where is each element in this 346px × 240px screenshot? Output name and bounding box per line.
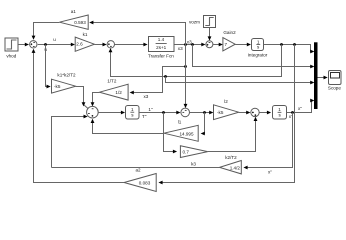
svg-text:7: 7 <box>225 42 228 47</box>
svg-text:14.995: 14.995 <box>179 132 193 137</box>
wire k1 to sum S2 <box>94 43 106 47</box>
gain Gain2 value 7 <box>223 30 236 51</box>
gain k1 value 2.6 <box>75 32 94 51</box>
svg-text:x'': x'' <box>298 106 302 111</box>
svg-text:Gain2: Gain2 <box>223 30 236 35</box>
sum S6 <box>251 108 259 116</box>
svg-text:1.4/2: 1.4/2 <box>230 165 241 170</box>
wire mux to scope <box>318 76 328 80</box>
gain l2 value -k5 <box>214 99 239 120</box>
gain 1/T2 value 1/2 <box>100 79 129 101</box>
svg-text:l2: l2 <box>224 99 228 104</box>
svg-text:a2: a2 <box>135 168 141 173</box>
gain a2 value 0.083 <box>124 168 156 192</box>
wire branch integrator1 out down to a2 input <box>158 45 294 185</box>
mid integrator block 1/s <box>126 106 140 120</box>
svg-text:Scope: Scope <box>328 86 341 91</box>
svg-text:l1: l1 <box>178 120 182 125</box>
svg-text:x3: x3 <box>144 94 149 99</box>
wire vozm down to S5 <box>208 28 212 41</box>
wire T'' branch down to gain k3 <box>164 113 178 154</box>
svg-text:Integrator: Integrator <box>248 53 268 58</box>
wire a1 feedback from x3 junction <box>89 21 185 45</box>
svg-text:x3: x3 <box>187 40 192 45</box>
svg-text:vhod: vhod <box>6 54 16 59</box>
wire x3: TF to sum S5 with junctions <box>174 40 205 51</box>
transfer fcn block 1.4/(2s+1) <box>148 37 174 59</box>
wire branch x' down to gain k2/T2 input <box>243 113 292 175</box>
svg-text:a1: a1 <box>71 9 77 14</box>
svg-text:k1*k2/T2: k1*k2/T2 <box>57 73 76 78</box>
sum S4 <box>181 108 190 117</box>
svg-text:k2/T2: k2/T2 <box>225 155 237 160</box>
sum S3 <box>87 106 99 118</box>
svg-text:x': x' <box>289 114 292 119</box>
wire Gain2 to Integrator <box>235 43 251 47</box>
svg-text:1'': 1'' <box>148 107 152 112</box>
mux block <box>314 42 318 109</box>
svg-text:T'': T'' <box>142 114 147 119</box>
wire integrator output to mux input 1 with junctions <box>264 43 315 53</box>
sum S1 <box>30 41 37 48</box>
wire k2/T2 output left to S3 feedback corner <box>52 167 220 169</box>
wire S6 to integrator2 <box>259 111 271 115</box>
wire x3 vertical V1 down into S4 top <box>184 45 188 109</box>
gain k1*k2/T2 value -k5 <box>52 73 77 94</box>
wire V2 branch x3 to mux input 2 <box>193 45 315 69</box>
wire 14.995 output into S3 bottom <box>91 119 164 134</box>
svg-text:2s+1: 2s+1 <box>156 45 167 50</box>
svg-text:Transfer Fcn: Transfer Fcn <box>148 54 174 59</box>
svg-text:-k5: -k5 <box>217 110 224 115</box>
svg-text:u: u <box>53 37 56 42</box>
wire k3 output right and up into S6 bottom <box>208 117 258 152</box>
wire k1k2 output to S3 upper-left <box>76 87 89 109</box>
svg-text:vozm: vozm <box>189 20 200 25</box>
svg-text:2.6: 2.6 <box>76 42 83 47</box>
svg-text:0.593: 0.593 <box>74 20 86 25</box>
gain a1 value 0.593 <box>59 9 88 29</box>
wire vhod to sum S1 <box>18 43 29 47</box>
scope block <box>328 71 341 91</box>
wire u: S1 to gain k1, junction <box>38 37 75 52</box>
wire S4 to gain l2 with junction <box>190 111 214 115</box>
wire lower-left feedback into S3 <box>52 115 88 168</box>
svg-text:0.7: 0.7 <box>183 150 190 155</box>
svg-text:1/T2: 1/T2 <box>107 79 117 84</box>
svg-text:x3: x3 <box>178 46 183 51</box>
svg-text:0.083: 0.083 <box>139 181 151 186</box>
svg-text:-k5: -k5 <box>54 84 61 89</box>
wire T'' from mid integrator to S4 with junction <box>139 107 181 119</box>
svg-text:1/2: 1/2 <box>115 90 122 95</box>
svg-text:1: 1 <box>278 107 281 112</box>
wire l2 to sum S6 <box>239 111 251 115</box>
gain l1 value 14.995 <box>164 120 198 142</box>
step source vhod <box>5 38 18 59</box>
integrator2 block 1/s <box>273 106 287 120</box>
svg-text:k3: k3 <box>191 162 196 167</box>
wire 1/2 output into S3 top <box>91 93 100 107</box>
svg-text:x'': x'' <box>268 170 272 175</box>
wire a2 output left and up into S1 bottom <box>32 49 125 183</box>
wire S5 to Gain2 <box>213 43 223 47</box>
sum S5 <box>206 41 213 48</box>
wire u branch down to gain k1k2 <box>46 45 51 89</box>
wire x' from integrator2 to mux input 4 with junction <box>287 99 315 119</box>
wire S2 to Transfer Fcn <box>115 43 148 47</box>
svg-text:1.4: 1.4 <box>158 37 165 42</box>
integrator block 1/s <box>248 39 268 58</box>
wire S3 output to mid integrator <box>98 111 125 115</box>
wire feedback integrator1 out to S2 bottom <box>109 45 282 78</box>
step source vozm <box>189 16 216 28</box>
wire x3 branch left segment to 1/2 gain riser <box>130 65 187 99</box>
gain k2/T2 value 1.4/2 <box>220 155 242 174</box>
wire S4 branch down to gain l1 input <box>201 113 205 136</box>
wire jog branch to mux input 3 <box>166 77 315 85</box>
gain k3 value 0.7 <box>180 146 207 167</box>
wire a1 output down into S1 top <box>32 23 60 40</box>
sum S2 <box>107 41 114 48</box>
svg-text:k1: k1 <box>83 32 88 37</box>
